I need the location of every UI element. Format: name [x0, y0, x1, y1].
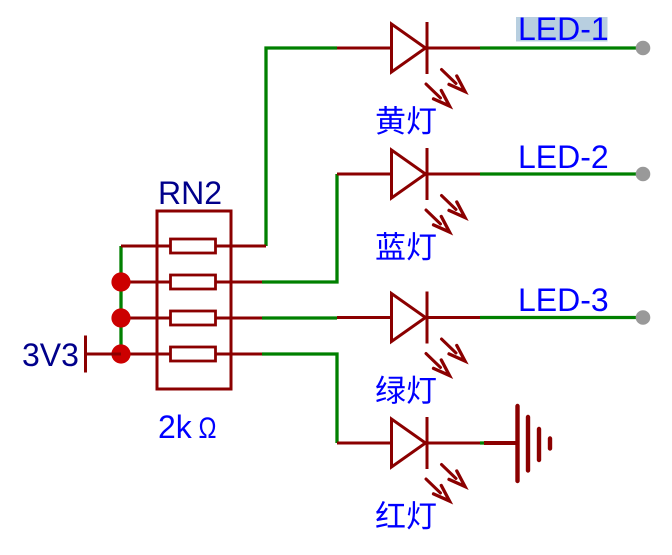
RN2 resistor element 3 rectangle — [171, 311, 216, 325]
wire net LED-1 right — [480, 46, 643, 49]
svg-text:LED-3: LED-3 — [518, 282, 609, 318]
label yellow lamp (huang deng) — [377, 106, 436, 135]
LED LED2 (blue) anode pin wire — [337, 173, 392, 176]
gray wire endpoint dot y=48 — [636, 41, 651, 56]
wire net LED-1 left (resistor1 to LED1) — [266, 48, 337, 246]
LED LED1 (yellow) cathode bar — [426, 22, 429, 74]
wire junction dot at 3V3 bus y=354 — [111, 344, 130, 363]
wire net LED-2 left (resistor2 to LED2) — [262, 174, 337, 282]
LED LED1 (yellow) light arrow 2 — [426, 84, 441, 98]
LED LED3 (green) triangle — [392, 294, 426, 342]
wire junction dot at 3V3 bus y=282 — [111, 272, 130, 291]
LED LED3 (green) cathode bar — [426, 292, 429, 344]
svg-text:3V3: 3V3 — [22, 337, 79, 373]
wire 3V3 vertical bus — [119, 246, 122, 354]
LED LED2 (blue) triangle — [392, 150, 426, 198]
LED LED3 (green) light arrow 1 — [442, 339, 457, 353]
wire net LED-2 right — [480, 172, 643, 175]
RN2 element 2 left pin — [121, 281, 171, 284]
ground bar 2 — [526, 417, 530, 471]
LED LED2 (blue) cathode bar — [426, 148, 429, 200]
LED LED4 (red) light arrow 2 — [426, 479, 441, 493]
LED LED3 (green) light arrow 2 — [426, 354, 441, 368]
RN2 element 1 right pin — [216, 245, 267, 248]
RN2 element 1 left pin — [121, 245, 171, 248]
label green lamp (lv deng) — [376, 375, 436, 403]
resistor network RN2 body box — [157, 211, 231, 389]
LED LED3 (green) cathode pin wire — [427, 316, 480, 319]
ground bar 4 — [548, 439, 552, 449]
svg-text:LED-2: LED-2 — [518, 139, 609, 175]
wire net LED-4 left (resistor4 to LED4) — [262, 354, 337, 443]
wire LED4 to ground — [480, 441, 484, 444]
LED LED4 (red) cathode bar — [426, 417, 429, 469]
svg-text:RN2: RN2 — [158, 175, 222, 211]
3V3 power net flag pin — [86, 353, 122, 356]
RN2 element 2 right pin — [216, 281, 263, 284]
wire net LED-3 right — [480, 316, 643, 319]
LED LED1 (yellow) triangle — [392, 24, 426, 72]
RN2 element 3 right pin — [216, 317, 263, 320]
RN2 resistor element 1 rectangle — [171, 239, 216, 253]
svg-text:LED-1: LED-1 — [518, 11, 609, 47]
svg-text:2k: 2k — [158, 409, 193, 445]
gray wire endpoint dot y=174 — [636, 167, 651, 182]
LED LED1 (yellow) light arrow 1 — [442, 70, 457, 84]
LED LED4 (red) triangle — [392, 419, 426, 467]
LED LED4 (red) light arrow 1 — [442, 465, 457, 479]
LED LED4 (red) cathode pin wire — [427, 442, 480, 445]
ground pin wire — [484, 441, 517, 445]
LED LED1 (yellow) anode pin wire — [337, 47, 392, 50]
LED LED2 (blue) cathode pin wire — [427, 173, 480, 176]
LED LED3 (green) anode pin wire — [337, 316, 392, 319]
3V3 power net flag bar — [84, 336, 87, 373]
LED LED2 (blue) light arrow 2 — [426, 210, 441, 224]
RN2 resistor element 2 rectangle — [171, 275, 216, 289]
LED LED4 (red) anode pin wire — [337, 442, 392, 445]
ground bar 1 — [515, 406, 519, 481]
svg-text:Ω: Ω — [199, 412, 217, 445]
label blue lamp (lan deng) — [376, 232, 435, 261]
RN2 resistor element 4 rectangle — [171, 347, 216, 361]
label red lamp (hong deng) — [376, 501, 436, 530]
LED LED1 (yellow) cathode pin wire — [427, 47, 480, 50]
net label LED-1 selection highlight — [516, 17, 608, 42]
wire junction dot at 3V3 bus y=318 — [111, 308, 130, 327]
ground bar 3 — [537, 429, 541, 460]
RN2 element 4 right pin — [216, 353, 263, 356]
wire net LED-3 left (resistor3 to LED3) — [262, 316, 337, 319]
RN2 element 3 left pin — [121, 317, 171, 320]
RN2 element 4 left pin — [121, 353, 171, 356]
LED LED2 (blue) light arrow 1 — [442, 196, 457, 210]
gray wire endpoint dot y=317.5 — [636, 310, 651, 325]
